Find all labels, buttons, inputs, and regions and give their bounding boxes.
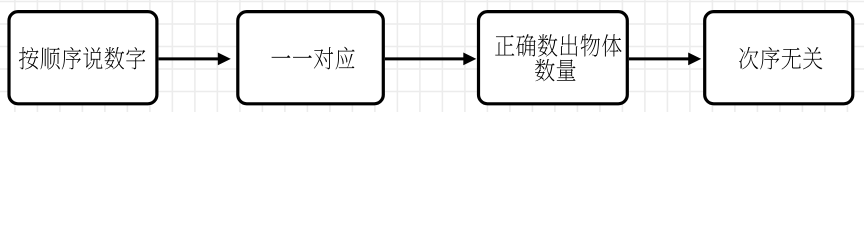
- text 次序无关: [739, 47, 822, 70]
- text 数量: [535, 59, 576, 81]
- box 3 正确数出物体数量: [479, 12, 628, 104]
- arrow 2: [385, 53, 476, 66]
- box 2 一一对应: [238, 12, 383, 104]
- box 4 次序无关: [705, 12, 853, 104]
- arrow 3: [629, 53, 701, 66]
- text 按顺序说数字: [19, 47, 145, 70]
- text 一一对应: [272, 47, 355, 70]
- arrow 1: [159, 53, 231, 66]
- box 1 按顺序说数字: [9, 12, 157, 104]
- text 正确数出物体: [495, 34, 621, 57]
